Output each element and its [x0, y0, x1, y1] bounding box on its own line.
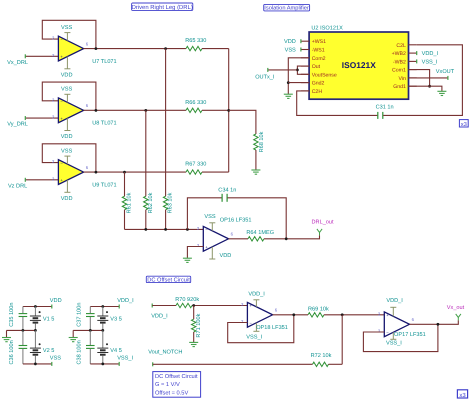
- ground below R68: [251, 170, 260, 174]
- svg-text:R62 10k: R62 10k: [147, 192, 154, 213]
- pin +WB2 (right) of U2: [392, 51, 417, 57]
- wire: bottom rail group 2: [90, 363, 119, 365]
- resistor R66 330: [185, 100, 206, 113]
- pin C2H (left) of U2: [301, 89, 322, 95]
- svg-text:C37 100n: C37 100n: [77, 302, 83, 326]
- resistor R69 10k: [308, 305, 329, 317]
- svg-text:Gnd1: Gnd1: [393, 84, 406, 90]
- svg-text:VSS: VSS: [61, 87, 72, 93]
- resistor R71 100k: [192, 306, 202, 343]
- wire: U8 non-inverting input from terminal: [25, 117, 58, 119]
- wire: OP17 output to Vx_out: [410, 320, 459, 324]
- svg-text:VDD: VDD: [61, 134, 73, 140]
- wire: R61 bottom lead: [124, 210, 126, 230]
- svg-text:U2 ISO121X: U2 ISO121X: [311, 25, 343, 31]
- wire: OP18 output to R69: [273, 314, 308, 316]
- resistor R67 330: [185, 162, 206, 175]
- svg-text:VDD_I: VDD_I: [422, 51, 439, 57]
- svg-text:Gnd2: Gnd2: [312, 81, 325, 87]
- node battery mid g1: [34, 329, 37, 332]
- wire: OUTx_I lead: [268, 69, 298, 71]
- svg-text:VSS_I: VSS_I: [246, 334, 262, 340]
- wire: R66 right side to bus: [202, 109, 229, 111]
- wire: C2H down and along bottom to C31: [297, 91, 378, 116]
- wire: R61 top lead from row: [124, 172, 126, 196]
- svg-text:C31 1n: C31 1n: [376, 105, 394, 111]
- battery V1 5: [30, 307, 55, 331]
- capacitor C37 100n: [77, 302, 95, 330]
- svg-text:VDD: VDD: [50, 298, 62, 304]
- wire: C34 feedback left leg: [187, 198, 221, 230]
- node U8 output/feedback junction: [95, 109, 98, 112]
- wire: Com2 to ground rail: [288, 58, 309, 94]
- svg-text:-WS1: -WS1: [312, 48, 325, 54]
- node battery mid g2: [101, 329, 104, 332]
- node row1 to R63 vertical: [164, 47, 167, 50]
- svg-text:VDD: VDD: [61, 196, 73, 202]
- output terminal DRL_out: [312, 220, 335, 236]
- svg-text:R61 10k: R61 10k: [126, 192, 133, 213]
- node cap mid g2: [89, 329, 92, 332]
- wire: VDD_I to R70: [152, 305, 176, 307]
- wire: R64 to DRL_out: [264, 235, 320, 238]
- svg-text:-WB2: -WB2: [393, 59, 406, 65]
- resistor R70 920k: [175, 296, 199, 308]
- node battery bottom g2: [101, 363, 104, 366]
- svg-text:R71 100k: R71 100k: [195, 313, 202, 337]
- pin Out (left) of U2: [301, 64, 321, 70]
- svg-text:+WB2: +WB2: [392, 51, 406, 57]
- wire: OP17 feedback loop: [363, 324, 438, 351]
- svg-text:C34 1n: C34 1n: [218, 187, 236, 193]
- node C34 feedback tap: [186, 228, 189, 231]
- node battery top g2: [101, 305, 104, 308]
- wire: R72 to junction: [329, 363, 343, 365]
- wire: U8 output row: [84, 109, 186, 111]
- capacitor C36 100n: [9, 330, 27, 364]
- node row3 to R61 vertical: [123, 171, 126, 174]
- pin Vin (right) of U2: [398, 76, 416, 82]
- power terminal VSS: [50, 356, 61, 366]
- output terminal Vx_out: [447, 305, 465, 321]
- node R62 bottom: [144, 228, 147, 231]
- svg-text:V2 5: V2 5: [43, 348, 55, 354]
- wire: U7 output row: [84, 48, 186, 50]
- svg-text:R70 920k: R70 920k: [175, 296, 199, 303]
- wire: R67 right side to bus: [202, 171, 229, 173]
- svg-text:VDD_I: VDD_I: [248, 291, 265, 297]
- pin Com1 (right) of U2: [392, 68, 417, 74]
- svg-text:VSS: VSS: [61, 148, 72, 154]
- wire: R68 to ground: [255, 150, 257, 170]
- svg-text:R63 10k: R63 10k: [167, 192, 174, 213]
- ground at Com2/Gnd2: [284, 94, 293, 98]
- IC U2 ISO121X body: [309, 25, 408, 99]
- svg-text:Out: Out: [312, 64, 321, 70]
- svg-text:OUTx_I: OUTx_I: [255, 75, 275, 81]
- svg-text:Com2: Com2: [312, 56, 326, 62]
- wire: mid rail group 2: [73, 329, 103, 331]
- svg-text:VDD_I: VDD_I: [386, 298, 403, 304]
- wire: Vin to VxOUT terminal: [409, 77, 448, 79]
- svg-text:Vy_DRL: Vy_DRL: [7, 122, 28, 128]
- svg-text:x3: x3: [459, 392, 466, 399]
- svg-text:Vin: Vin: [398, 76, 406, 82]
- op-amp OP17 LF351: [378, 307, 415, 339]
- section title: Isolation Amplifier: [264, 4, 310, 11]
- svg-text:VDD: VDD: [284, 39, 296, 45]
- capacitor C34 1n: [218, 187, 236, 201]
- wire: OP18 feedback loop: [228, 315, 294, 343]
- node battery top g1: [34, 305, 37, 308]
- svg-text:Driven Right Leg (DRL): Driven Right Leg (DRL): [132, 4, 193, 11]
- svg-text:G = 1 V/V: G = 1 V/V: [155, 381, 180, 388]
- battery V4 5: [97, 330, 122, 364]
- op-amp U7 TL071: [52, 33, 89, 69]
- svg-text:VDD: VDD: [61, 72, 73, 78]
- svg-text:R65 330: R65 330: [185, 38, 206, 44]
- svg-text:Vz DRL: Vz DRL: [8, 183, 27, 189]
- svg-text:VSS_I: VSS_I: [386, 340, 402, 346]
- wire: U9 output row: [84, 171, 186, 173]
- svg-text:VSS: VSS: [285, 48, 296, 54]
- svg-text:U7 TL071: U7 TL071: [92, 59, 116, 65]
- svg-text:VSS: VSS: [61, 25, 72, 31]
- svg-text:C36 100n: C36 100n: [9, 340, 15, 364]
- resistor R72 10k: [311, 352, 332, 366]
- svg-text:R72 10k: R72 10k: [311, 352, 332, 359]
- ground at OP16 pin3: [183, 258, 192, 262]
- op-amp U8 TL071: [52, 94, 89, 130]
- resistor R68 10k: [254, 131, 265, 152]
- wire: C34 feedback right leg to output node: [228, 198, 287, 239]
- node battery bottom g1: [34, 363, 37, 366]
- op-amp OP18 LF351: [241, 300, 278, 332]
- svg-text:VSS: VSS: [204, 214, 215, 220]
- svg-text:R68 10k: R68 10k: [258, 131, 265, 152]
- output terminal VxOUT: [436, 69, 455, 80]
- wire: Com1 down to Gnd1 rail: [409, 70, 430, 87]
- svg-text:R67 330: R67 330: [185, 162, 206, 168]
- node bus at row2: [227, 109, 230, 112]
- wire: R62 bottom lead: [145, 210, 147, 230]
- pin +WS1 (left) of U2: [301, 39, 326, 45]
- node Out/VoutSense junction: [296, 69, 299, 72]
- wire: R70 to OP18 pin3: [192, 305, 247, 307]
- svg-text:V3 5: V3 5: [110, 317, 122, 323]
- annotation x3 (isolation stage): [459, 120, 468, 128]
- svg-text:OP16 LF351: OP16 LF351: [220, 218, 252, 224]
- wire: U8 feedback loop output to pin 2: [42, 82, 96, 110]
- ground at Gnd1: [437, 91, 446, 95]
- svg-text:VSS_I: VSS_I: [422, 59, 438, 65]
- wire: R72 branch down: [341, 315, 343, 365]
- input terminal OUTx_I: [255, 68, 275, 81]
- node U9 output/feedback junction: [95, 171, 98, 174]
- svg-text:C2H: C2H: [312, 89, 323, 95]
- resistor R64 1MEG: [246, 230, 274, 241]
- svg-text:R66 330: R66 330: [185, 100, 206, 106]
- annotation box: DC Offset Circuit G=1V/V Offset=0.5V: [153, 372, 201, 398]
- node OP17 output: [437, 323, 440, 326]
- pin VoutSense (left) of U2: [301, 72, 337, 78]
- op-amp OP16 LF351: [197, 223, 234, 259]
- svg-text:Vx_DRL: Vx_DRL: [7, 60, 28, 66]
- svg-text:Offset = 0.5V: Offset = 0.5V: [155, 389, 188, 396]
- capacitor C38 100n: [77, 330, 95, 364]
- power terminal VSS at -WS1: [285, 48, 301, 54]
- power terminal VSS_I: [117, 356, 133, 366]
- ground of supply group 1: [6, 330, 8, 337]
- svg-text:U9 TL071: U9 TL071: [92, 182, 116, 188]
- input terminal Vout_NOTCH: [148, 350, 182, 367]
- wire: R63 bottom lead: [165, 210, 167, 230]
- pin Com2 (left) of U2: [301, 56, 326, 62]
- wire: R65 right side to bus: [202, 48, 229, 50]
- wire: R69 to OP17 pin3: [324, 314, 384, 316]
- pin C2L (right) of U2: [396, 43, 416, 49]
- annotation x3 (DC offset stage): [457, 390, 467, 399]
- capacitor C31 1n: [376, 105, 394, 119]
- node row2 to R62 vertical: [144, 109, 147, 112]
- node R63 bottom: [164, 228, 167, 231]
- svg-text:R69 10k: R69 10k: [308, 305, 329, 312]
- wire: U9 non-inverting input from terminal: [25, 179, 58, 181]
- power terminal VSS_I at -WB2: [417, 59, 438, 65]
- node Gnd2 join: [287, 81, 290, 84]
- svg-text:ISO121X: ISO121X: [342, 60, 376, 70]
- svg-text:VxOUT: VxOUT: [436, 69, 455, 75]
- power terminal VDD at +WS1: [284, 39, 301, 45]
- ground of supply group 2: [72, 330, 74, 337]
- input terminal Vz DRL: [8, 178, 27, 190]
- svg-text:Vout_NOTCH: Vout_NOTCH: [148, 350, 182, 356]
- svg-text:V4 5: V4 5: [110, 348, 122, 354]
- svg-text:Isolation Amplifier: Isolation Amplifier: [264, 5, 309, 12]
- wire: U9 feedback loop output to pin 2: [42, 144, 96, 172]
- pin Gnd2 (left) of U2: [301, 81, 325, 87]
- pin -WS1 (left) of U2: [301, 48, 325, 54]
- svg-text:VSS_I: VSS_I: [117, 356, 133, 362]
- node cap mid g1: [22, 329, 25, 332]
- wire: OP16 pin3 to ground: [187, 247, 203, 258]
- node DRL feedback junction: [285, 237, 288, 240]
- op-amp U9 TL071: [52, 156, 89, 192]
- svg-text:C2L: C2L: [396, 43, 406, 49]
- svg-text:DRL_out: DRL_out: [312, 220, 335, 226]
- svg-text:OP18 LF351: OP18 LF351: [256, 325, 288, 331]
- wire: Gnd1 to ground: [409, 86, 442, 91]
- svg-text:C35 100n: C35 100n: [9, 302, 15, 326]
- node U7 output/feedback junction: [95, 47, 98, 50]
- wire: top rail of supply group 2: [90, 306, 119, 308]
- resistor R62 10k: [144, 192, 154, 213]
- power terminal VDD: [50, 298, 62, 309]
- svg-text:Vx_out: Vx_out: [447, 305, 465, 311]
- svg-text:DC Offset Circuit: DC Offset Circuit: [147, 277, 190, 284]
- resistor R61 10k: [122, 192, 132, 213]
- svg-text:U8 TL071: U8 TL071: [92, 121, 116, 127]
- resistor R65 330: [185, 38, 206, 51]
- wire: bus to R68 branch: [229, 110, 256, 134]
- svg-text:OP17 LF351: OP17 LF351: [394, 332, 426, 338]
- svg-text:V1 5: V1 5: [43, 317, 55, 323]
- pin Gnd1 (right) of U2: [393, 84, 417, 90]
- pin -WB2 (right) of U2: [393, 59, 417, 65]
- wire: R62 top lead from row: [145, 110, 147, 196]
- wire: Vout_NOTCH to R72: [153, 363, 313, 365]
- section title: Driven Right Leg (DRL): [132, 3, 193, 11]
- battery V2 5: [30, 330, 55, 364]
- power terminal VDD_I at +WB2: [417, 51, 439, 57]
- wire: bottom rail group 1: [23, 363, 52, 365]
- wire: C31 right to C2L tall loop: [383, 45, 462, 116]
- wire: R63 top lead from row: [165, 49, 167, 197]
- svg-text:Com1: Com1: [392, 68, 406, 74]
- ground below R71: [189, 342, 198, 346]
- input terminal Vx_DRL: [7, 54, 28, 66]
- svg-text:+WS1: +WS1: [312, 39, 326, 45]
- wire: Out pin jog down to OUTx_I node: [297, 66, 309, 74]
- wire: top rail of supply group 1: [23, 306, 52, 308]
- svg-text:x3: x3: [461, 121, 467, 128]
- wire: right vertical bus joining R65/R66/R67: [228, 49, 230, 173]
- svg-text:VDD_I: VDD_I: [117, 298, 134, 304]
- svg-text:VDD_I: VDD_I: [151, 314, 168, 320]
- battery V3 5: [97, 307, 122, 331]
- power terminal VDD_I: [117, 298, 134, 309]
- wire: summing node row into OP16 pin 2: [125, 228, 204, 230]
- capacitor C35 100n: [9, 302, 27, 330]
- svg-text:DC Offset Circuit: DC Offset Circuit: [155, 373, 198, 380]
- wire: U7 feedback loop output to pin 2: [42, 20, 96, 48]
- wire: OP16 output row: [229, 238, 249, 240]
- node OP18 output: [292, 313, 295, 316]
- svg-text:R64 1MEG: R64 1MEG: [246, 230, 274, 236]
- node R70/R71 divider: [192, 304, 195, 307]
- section title: DC Offset Circuit: [146, 276, 190, 283]
- node Com1/Gnd1 join: [428, 85, 431, 88]
- svg-text:VoutSense: VoutSense: [312, 72, 337, 78]
- wire: U7 non-inverting input from terminal: [25, 55, 58, 57]
- node R69/R72 junction: [341, 313, 344, 316]
- input terminal Vy_DRL: [7, 116, 28, 128]
- svg-text:VDD: VDD: [219, 253, 231, 259]
- svg-text:C38 100n: C38 100n: [77, 340, 83, 364]
- svg-text:VSS: VSS: [50, 356, 61, 362]
- input terminal VDD_I (DC offset): [151, 304, 168, 320]
- resistor R63 10k: [163, 192, 173, 213]
- wire: mid rail group 1: [7, 329, 36, 331]
- wire: Gnd2 stub to rail: [288, 82, 309, 84]
